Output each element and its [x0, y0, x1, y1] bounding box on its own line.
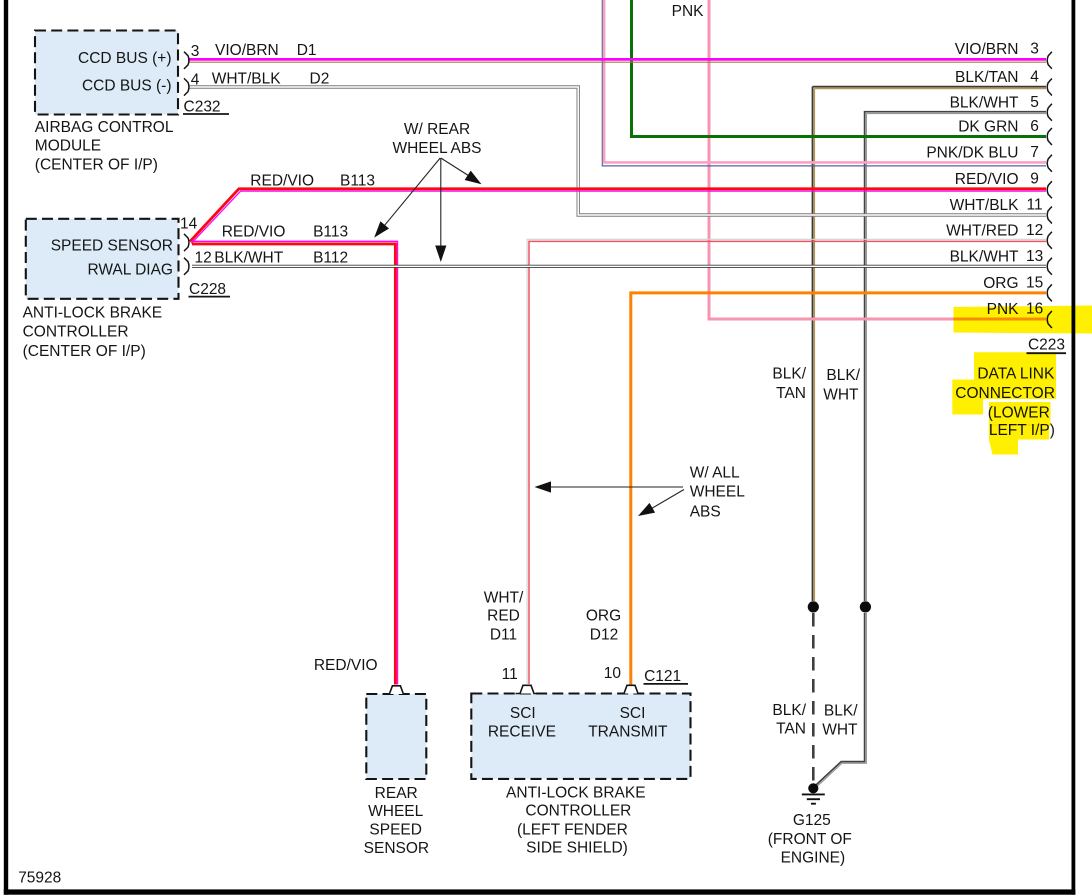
svg-text:12: 12	[195, 249, 212, 266]
svg-text:13: 13	[1026, 248, 1043, 265]
svg-text:RECEIVE: RECEIVE	[488, 723, 556, 740]
svg-text:3: 3	[1030, 41, 1039, 58]
svg-text:4: 4	[1030, 69, 1039, 86]
svg-text:TAN: TAN	[776, 385, 806, 402]
highlight over CONNECTOR row	[952, 380, 1056, 415]
svg-text:SENSOR: SENSOR	[364, 840, 429, 857]
connector bracket DLC pin 9	[1047, 181, 1052, 198]
wire RED/VIO B113 lower from ABS pin14 to rear wheel speed sensor	[192, 241, 398, 684]
highlight over LEFT I/P row	[989, 424, 1049, 455]
splice dot BLK/WHT	[860, 601, 871, 612]
svg-text:75928: 75928	[18, 870, 61, 887]
svg-text:REAR: REAR	[375, 785, 418, 802]
BOXES	[26, 31, 1052, 780]
svg-text:ABS: ABS	[690, 503, 721, 520]
connector arc pin 11 on SCI box	[516, 685, 539, 693]
wire WHT/RED D11 from SCI RECEIVE pin11 up then to DLC pin12	[527, 239, 1046, 684]
module box REAR WHEEL SPEED SENSOR	[366, 694, 426, 779]
highlight over DATA LINK row	[974, 352, 1056, 380]
svg-text:W/ REAR: W/ REAR	[404, 121, 470, 138]
ARROWS	[374, 158, 684, 516]
svg-text:7: 7	[1030, 144, 1039, 161]
svg-text:SPEED SENSOR: SPEED SENSOR	[51, 238, 173, 255]
svg-text:WHEEL ABS: WHEEL ABS	[392, 140, 481, 157]
svg-text:15: 15	[1026, 275, 1043, 292]
svg-text:SCI: SCI	[510, 705, 536, 722]
svg-text:WHT/RED: WHT/RED	[946, 223, 1018, 240]
wire DK GRN from top to DLC pin6	[632, 0, 1047, 137]
svg-text:(FRONT OF: (FRONT OF	[768, 831, 852, 848]
svg-text:CCD BUS (+): CCD BUS (+)	[78, 50, 171, 67]
page border bottom	[4, 889, 1076, 894]
svg-text:G125: G125	[793, 812, 831, 829]
ground symbol bars	[802, 793, 825, 795]
svg-text:B112: B112	[313, 249, 348, 266]
svg-text:ENGINE): ENGINE)	[781, 850, 846, 867]
connector arc pin 10 on SCI box	[620, 685, 643, 693]
svg-text:RWAL DIAG: RWAL DIAG	[87, 262, 173, 279]
connector bracket DLC pin 11	[1047, 207, 1052, 224]
svg-text:ORG: ORG	[983, 275, 1018, 292]
svg-text:10: 10	[604, 665, 622, 682]
svg-text:TRANSMIT: TRANSMIT	[588, 723, 668, 740]
svg-text:ANTI-LOCK BRAKE: ANTI-LOCK BRAKE	[23, 304, 163, 321]
highlight over (LOWER row	[989, 402, 1051, 426]
svg-text:BLK/WHT: BLK/WHT	[950, 94, 1019, 111]
connector bracket DLC pin 6	[1047, 128, 1052, 145]
connector arc on rear wheel speed sensor box	[385, 686, 408, 694]
svg-text:C232: C232	[184, 98, 221, 115]
svg-text:BLK/: BLK/	[826, 367, 860, 384]
connector bracket DLC pin 4	[1047, 79, 1052, 96]
svg-text:11: 11	[502, 666, 518, 683]
connector bracket ABS pin 14	[184, 234, 189, 251]
svg-text:ORG: ORG	[586, 608, 621, 625]
svg-text:14: 14	[180, 216, 198, 233]
svg-text:11: 11	[1027, 197, 1043, 214]
svg-text:ANTI-LOCK BRAKE: ANTI-LOCK BRAKE	[506, 784, 646, 801]
wire BLK/TAN dashed segment to ground G125	[812, 613, 815, 785]
svg-text:B113: B113	[340, 172, 375, 189]
svg-text:C228: C228	[189, 281, 226, 298]
svg-text:WHT: WHT	[822, 722, 858, 739]
svg-text:PNK/DK BLU: PNK/DK BLU	[926, 145, 1018, 162]
svg-text:RED: RED	[487, 608, 520, 625]
svg-text:(CENTER OF I/P): (CENTER OF I/P)	[23, 343, 146, 360]
svg-text:WHT/BLK: WHT/BLK	[950, 197, 1020, 214]
svg-text:WHEEL: WHEEL	[368, 803, 424, 820]
svg-text:6: 6	[1030, 118, 1039, 135]
svg-text:W/ ALL: W/ ALL	[690, 464, 740, 481]
svg-text:AIRBAG CONTROL: AIRBAG CONTROL	[35, 119, 174, 136]
svg-text:CONTROLLER: CONTROLLER	[525, 802, 631, 819]
arrow W/REAR WHEEL ABS to BLK/WHT wire	[440, 158, 442, 250]
svg-text:D12: D12	[590, 627, 618, 644]
svg-text:WHT/BLK: WHT/BLK	[212, 71, 282, 88]
svg-text:VIO/BRN: VIO/BRN	[955, 41, 1019, 58]
connector bracket airbag pin 4	[184, 78, 189, 95]
svg-text:RED/VIO: RED/VIO	[955, 171, 1019, 188]
connector bracket DLC pin 7	[1047, 155, 1052, 172]
svg-text:BLK/: BLK/	[772, 366, 806, 383]
connector bracket DLC pin 12	[1047, 232, 1052, 249]
module box AIRBAG CONTROL MODULE C232	[35, 31, 178, 115]
wire RED/VIO B113 diagonal from ABS pin14 up to horizontal run to DLC pin9	[191, 191, 1046, 243]
svg-text:SCI: SCI	[620, 705, 646, 722]
wire BLK/WHT B112 from ABS pin12 to DLC pin13	[192, 265, 1046, 268]
svg-text:BLK/TAN: BLK/TAN	[955, 69, 1018, 86]
module box ANTI-LOCK BRAKE CONTROLLER C228 (SPEED SENSOR / RWAL DIAG)	[26, 219, 179, 299]
svg-text:D11: D11	[490, 627, 517, 644]
svg-text:WHT/: WHT/	[484, 590, 524, 607]
connector bracket DLC pin 3	[1047, 52, 1052, 69]
svg-text:WHEEL: WHEEL	[690, 484, 746, 501]
svg-text:12: 12	[1026, 222, 1043, 239]
svg-text:RED/VIO: RED/VIO	[222, 223, 286, 240]
wire PNK from top to DLC pin16	[709, 0, 1046, 319]
page border left	[4, 0, 8, 895]
connector bracket ABS pin 12	[184, 258, 189, 275]
svg-text:PNK: PNK	[672, 3, 705, 20]
wire VIO/BRN D1 from airbag pin3 to DLC pin3	[188, 58, 1046, 61]
svg-text:3: 3	[191, 43, 200, 60]
arrow W/REAR WHEEL ABS to lower RED/VIO wire	[380, 158, 441, 232]
svg-text:RED/VIO: RED/VIO	[250, 172, 314, 189]
highlight over PNK pin 16 row	[954, 306, 1092, 334]
wire ORG D12 from SCI TRANSMIT pin10 up then to DLC pin15	[631, 293, 1046, 685]
svg-text:TAN: TAN	[776, 721, 806, 738]
svg-text:RED/VIO: RED/VIO	[314, 657, 378, 674]
svg-text:5: 5	[1030, 94, 1039, 111]
svg-text:CCD BUS (-): CCD BUS (-)	[82, 78, 172, 95]
splice dot BLK/TAN	[808, 601, 819, 612]
svg-text:C121: C121	[644, 668, 681, 685]
wire WHT/BLK D2 from airbag pin4 down then to DLC pin11	[188, 87, 1046, 215]
wire BLK/WHT from DLC pin5 down to splice and ground	[865, 112, 1046, 601]
svg-text:BLK/: BLK/	[824, 703, 858, 720]
connector bracket DLC pin 15	[1047, 284, 1052, 301]
svg-text:SPEED: SPEED	[369, 822, 422, 839]
svg-text:SIDE SHIELD): SIDE SHIELD)	[526, 839, 628, 856]
svg-text:(LEFT FENDER: (LEFT FENDER	[517, 821, 628, 838]
wire BLK/TAN from DLC pin4 down to splice	[813, 87, 1047, 601]
svg-text:VIO/BRN: VIO/BRN	[215, 42, 279, 59]
arrow W/ALL WHEEL ABS to WHT/RED wire	[548, 486, 683, 488]
svg-text:D2: D2	[310, 71, 330, 88]
svg-text:DK GRN: DK GRN	[958, 119, 1018, 136]
svg-text:WHT: WHT	[823, 386, 859, 403]
svg-text:BLK/WHT: BLK/WHT	[214, 249, 283, 266]
svg-text:C223: C223	[1028, 336, 1065, 353]
svg-text:B113: B113	[313, 223, 348, 240]
arrow W/REAR WHEEL ABS to upper RED/VIO wire	[441, 158, 472, 178]
ground G125 dot	[808, 783, 818, 793]
connector bracket DLC pin 5	[1047, 104, 1052, 121]
arrow W/ALL WHEEL ABS to ORG wire	[649, 490, 684, 511]
page border right	[1072, 0, 1076, 895]
svg-text:4: 4	[191, 71, 200, 88]
svg-text:(CENTER OF I/P): (CENTER OF I/P)	[35, 156, 158, 173]
svg-text:MODULE: MODULE	[35, 137, 101, 154]
svg-text:D1: D1	[297, 42, 317, 59]
svg-text:CONTROLLER: CONTROLLER	[23, 324, 129, 341]
module box ANTI-LOCK BRAKE CONTROLLER C121 (SCI RECEIVE / SCI TRANSMIT)	[471, 694, 690, 779]
HIGHLIGHTS	[952, 306, 1092, 455]
svg-text:9: 9	[1030, 171, 1039, 188]
wire PNK/DK BLU from top to DLC pin7	[602, 0, 1046, 166]
svg-text:BLK/: BLK/	[772, 702, 806, 719]
svg-text:BLK/WHT: BLK/WHT	[950, 249, 1019, 266]
connector bracket DLC pin 16	[1047, 311, 1052, 328]
connector bracket airbag pin 3	[184, 52, 189, 69]
connector bracket DLC pin 13	[1047, 258, 1052, 275]
